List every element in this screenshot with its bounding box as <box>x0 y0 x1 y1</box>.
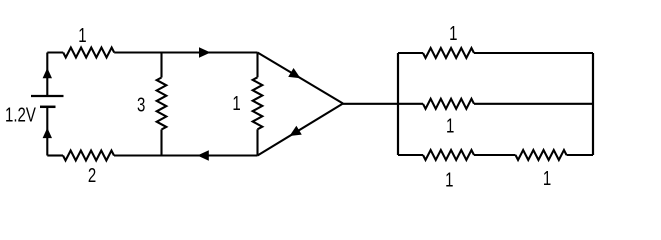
wire left rail upper <box>46 53 48 96</box>
svg-text:1: 1 <box>449 22 457 45</box>
wire triangle left edge lower stub <box>256 129 258 155</box>
box left edge wire <box>397 53 399 155</box>
wire resistor-3 branch upper <box>160 53 162 78</box>
box top edge wires <box>398 52 593 54</box>
resistor 1 (box middle) <box>423 99 474 109</box>
wire top-left horizontal (node A) <box>47 51 257 53</box>
wire resistor-3 branch lower <box>160 130 162 156</box>
triangle top edge <box>258 53 344 104</box>
current arrow above battery (up) <box>43 68 52 78</box>
svg-text:1.2V: 1.2V <box>5 103 36 126</box>
current arrow on triangle top edge <box>288 68 300 78</box>
battery V1 bottom plate (-) <box>40 106 56 109</box>
svg-text:1: 1 <box>78 24 86 47</box>
svg-text:1: 1 <box>446 114 454 137</box>
triangle bottom edge <box>258 104 344 156</box>
battery V1 top plate (+) <box>31 95 64 97</box>
svg-text:1: 1 <box>232 92 240 115</box>
svg-text:1: 1 <box>445 168 453 190</box>
current arrow on bottom wire (left) <box>197 150 209 161</box>
wire middle (apex to box) <box>343 103 423 105</box>
resistor 1 (vertical, triangle input) <box>253 77 263 129</box>
current arrow on triangle bottom edge <box>290 126 302 136</box>
wire middle (resistor to box right edge) <box>474 103 593 105</box>
box bottom edge wires <box>398 154 593 156</box>
current arrow below battery (up) <box>43 128 52 138</box>
wire triangle left edge upper stub <box>256 53 258 78</box>
resistor 1 (box bottom right) <box>516 150 567 160</box>
resistor 2 (bottom left) <box>63 151 114 161</box>
wire left rail lower <box>46 108 48 156</box>
resistor 1 (top left) <box>63 48 114 58</box>
svg-text:2: 2 <box>88 164 96 187</box>
svg-text:3: 3 <box>137 93 145 116</box>
resistor 1 (box bottom left) <box>423 150 474 160</box>
resistor 1 (box top) <box>423 48 474 58</box>
resistor 3 (middle vertical) <box>157 78 167 130</box>
wire bottom-left horizontal <box>47 154 257 156</box>
svg-text:1: 1 <box>543 167 551 190</box>
box right edge wire <box>592 53 594 155</box>
current arrow on top wire (right) <box>199 47 211 58</box>
